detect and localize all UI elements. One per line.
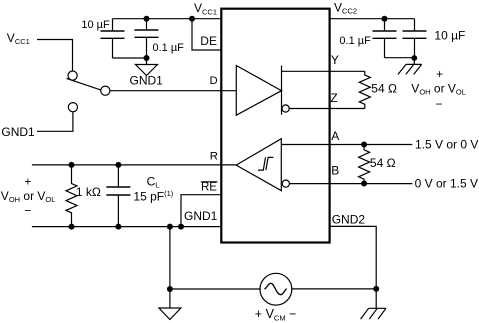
wire VCC1 to switch — [37, 40, 73, 72]
wire GND1 rail drop to VCM — [169, 227, 171, 289]
wire A input — [281, 144, 412, 146]
svg-text:1 kΩ: 1 kΩ — [76, 185, 101, 199]
node junction A at 54 ohm — [361, 142, 367, 148]
node junction rail at CL — [115, 224, 121, 230]
svg-text:0.1 µF: 0.1 µF — [153, 42, 185, 54]
wire switch bottom to GND1 — [37, 112, 73, 132]
node junction R wire at 1k — [69, 162, 75, 168]
wire B input — [289, 183, 412, 185]
svg-text:Z: Z — [330, 91, 337, 105]
svg-text:B: B — [331, 164, 339, 178]
capacitor CL plates — [106, 187, 130, 195]
node junction at earth top-right — [411, 55, 417, 61]
wire R output — [32, 164, 236, 166]
svg-text:DE: DE — [200, 34, 217, 48]
svg-text:0 V or 1.5 V: 0 V or 1.5 V — [415, 176, 478, 190]
svg-text:GND1: GND1 — [184, 209, 218, 223]
IC U1 box — [221, 9, 329, 243]
ground triangle bottom — [159, 289, 181, 320]
wire RE tie to GND1 rail — [181, 195, 221, 227]
node junction GND2 vertical at VCM wire — [373, 286, 379, 292]
svg-text:D: D — [210, 75, 218, 87]
resistor R2 54 ohm Y-Z — [359, 71, 370, 108]
wire GND1 rail bottom-left — [32, 226, 221, 228]
resistor R1 1k — [66, 165, 77, 227]
capacitor C4 10uF leads — [414, 19, 416, 58]
wire Z output — [289, 108, 365, 110]
driver output bar — [281, 66, 283, 115]
source VCM circle — [260, 273, 292, 305]
svg-text:RE: RE — [201, 181, 217, 193]
svg-text:+: + — [24, 174, 31, 188]
svg-text:−: − — [24, 204, 31, 218]
node junction VCC2 rail at C3 — [382, 16, 388, 22]
receiver inverting bubble B — [282, 180, 289, 187]
wire cap bottoms to GND1 — [113, 57, 147, 59]
svg-text:GND1: GND1 — [130, 74, 164, 88]
svg-text:A: A — [331, 129, 339, 143]
switch S1 top contact — [68, 71, 77, 80]
op-amp driver U1A triangle — [236, 66, 281, 116]
wire VCM left — [170, 288, 261, 290]
wire D input — [110, 90, 236, 92]
svg-text:54 Ω: 54 Ω — [370, 156, 396, 170]
resistor R3 54 ohm A-B — [359, 145, 370, 184]
switch S1 pole contact — [101, 86, 110, 95]
wire GND2 to earth — [330, 226, 377, 308]
op-amp receiver U1B triangle — [236, 139, 281, 191]
wire C3 C4 bottoms — [385, 57, 415, 59]
svg-text:10 µF: 10 µF — [434, 29, 465, 43]
capacitor C2 plates — [135, 30, 159, 37]
svg-text:54 Ω: 54 Ω — [371, 81, 397, 95]
svg-text:R: R — [210, 151, 218, 163]
ground earth top-right — [398, 58, 422, 74]
capacitor C3 plates — [373, 31, 397, 38]
capacitor C1 10uF left leads — [112, 19, 114, 58]
svg-text:−: − — [435, 97, 442, 111]
wire VCM right — [291, 288, 376, 290]
ground GND1 triangle top-left — [136, 58, 158, 76]
capacitor C2 0.1uF leads — [146, 19, 148, 58]
capacitor C4 plates — [403, 31, 427, 38]
svg-text:0.1 µF: 0.1 µF — [339, 35, 371, 47]
node junction at bottom triangle — [167, 286, 173, 292]
svg-text:GND1: GND1 — [1, 125, 35, 139]
svg-text:+: + — [436, 67, 443, 81]
capacitor C1 plates — [101, 31, 125, 38]
node junction rail at RE — [178, 224, 184, 230]
switch S1 bottom contact — [68, 103, 77, 112]
capacitor C3 0.1uF leads — [384, 19, 386, 58]
wire VCC1 rail top-left — [113, 18, 222, 20]
node junction R wire at CL — [115, 162, 121, 168]
driver inverting bubble — [282, 105, 289, 112]
ground earth bottom-right — [361, 308, 386, 319]
node junction on VCC1 rail at C2 — [144, 16, 150, 22]
capacitor CL leads — [117, 165, 119, 227]
node junction rail at 1k — [69, 224, 75, 230]
wire Y output — [282, 70, 365, 72]
source VCM sine — [264, 283, 286, 294]
svg-text:1.5 V or 0 V: 1.5 V or 0 V — [415, 138, 478, 152]
svg-text:Y: Y — [331, 53, 339, 67]
node junction at GND1 arrow — [144, 55, 150, 61]
svg-text:10 µF: 10 µF — [81, 19, 110, 31]
svg-text:GND2: GND2 — [332, 212, 366, 226]
node junction rail at bottom drop — [167, 224, 173, 230]
node junction on VCC1 rail at DE — [189, 16, 195, 22]
switch S1 blade — [67, 78, 101, 90]
node junction B at 54 ohm — [361, 181, 367, 187]
wire DE tie to VCC1 — [192, 19, 221, 50]
wire VCC2 rail top-right — [330, 18, 415, 20]
receiver hysteresis symbol — [258, 157, 273, 170]
